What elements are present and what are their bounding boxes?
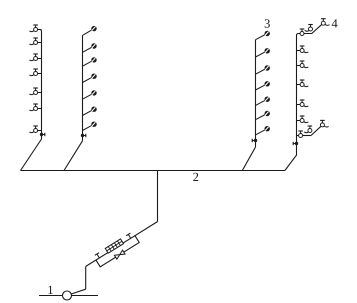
shut-off valve on riser 2 (81, 134, 86, 137)
faucet on riser 1, outlet 1 (30, 25, 42, 32)
water meter (105, 239, 123, 253)
shut-off valve on riser 3 (252, 139, 257, 142)
faucet on riser 4, outlet 3 (297, 61, 309, 68)
faucet on riser 1, outlet 2 (30, 38, 42, 45)
connecting pipe riser 4 to main (285, 155, 297, 170)
suction pipe into pump (71, 289, 86, 294)
shower head on riser 3, outlet 3 (256, 65, 270, 74)
label 1 (48, 286, 52, 294)
shower head on riser 3, outlet 6 (256, 111, 270, 120)
valve on riser 4 top branch (300, 29, 305, 36)
riser pipe 1 (left) (36, 30, 42, 140)
faucet on riser 1, outlet 6 (30, 104, 42, 111)
shower head on riser 3, outlet 1 (256, 31, 270, 40)
riser pipe 3 (255, 40, 257, 147)
main distribution pipe 2 (21, 170, 285, 172)
shower head on riser 3, outlet 4 (256, 81, 270, 90)
valve on bypass pipe (114, 250, 125, 259)
connecting pipe riser 3 to main (242, 147, 255, 170)
pump 1 (63, 291, 72, 300)
vertical supply pipe from main (157, 171, 159, 222)
shower head on riser 2, outlet 2 (83, 43, 97, 52)
shower head on riser 2, outlet 3 (83, 57, 97, 66)
faucet on riser 1, outlet 7 (30, 126, 42, 133)
faucet on riser 1, outlet 3 (30, 54, 42, 61)
shower head on riser 2, outlet 4 (83, 74, 97, 83)
label 4 (332, 19, 338, 27)
faucet on riser 4, outlet 4 (297, 80, 309, 87)
bypass pipe around water meter (96, 236, 139, 267)
valve on riser 4 bottom branch (298, 131, 303, 138)
shower head on riser 3, outlet 7 (256, 126, 270, 135)
faucet on riser 4, outlet 6 (297, 116, 309, 123)
faucet mid of riser 4 top branch (305, 25, 313, 32)
shower head on riser 2, outlet 7 (83, 122, 97, 131)
faucet mid of riser 4 bottom branch (304, 126, 312, 133)
gate valve (right of water meter) (126, 233, 133, 240)
faucet on riser 4, outlet 5 (297, 100, 309, 107)
shut-off valve on riser 1 (40, 133, 45, 136)
faucet on riser 4, outlet 2 (297, 46, 309, 53)
vertical pipe to pump (85, 266, 87, 289)
top branch pipe of riser 4 (312, 24, 322, 33)
shower head on riser 2, outlet 6 (83, 107, 97, 116)
faucet on riser 1, outlet 4 (30, 69, 42, 76)
shower head on riser 3, outlet 2 (256, 48, 270, 57)
faucet end of riser 4 top branch (321, 19, 329, 26)
gate valve (left of water meter) (95, 253, 102, 260)
faucet on riser 1, outlet 5 (30, 88, 42, 95)
shower head on riser 2, outlet 1 (83, 26, 97, 36)
label 3 (265, 19, 270, 27)
shower head on riser 2, outlet 5 (83, 90, 97, 99)
bottom branch pipe of riser 4 (297, 126, 322, 135)
inclined supply pipe (86, 222, 158, 267)
connecting pipe riser 1 to main (21, 139, 42, 171)
shower head on riser 3, outlet 5 (256, 97, 270, 106)
label 2 (193, 173, 198, 181)
riser pipe 2 (82, 35, 84, 140)
well supply line (39, 295, 98, 297)
riser pipe 4 (right) (297, 34, 312, 156)
faucet end of riser 4 bottom branch (320, 120, 328, 127)
shut-off valve on riser 4 (293, 142, 298, 145)
connecting pipe riser 2 to main (64, 141, 83, 171)
